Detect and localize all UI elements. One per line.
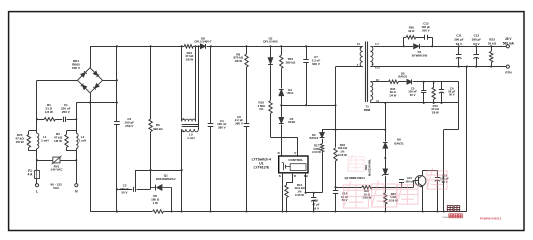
svg-text:BAV21: BAV21 [398,75,407,79]
svg-text:VAC: VAC [53,186,60,190]
svg-text:L: L [36,190,38,194]
svg-text:1,7: 1,7 [375,42,379,46]
svg-text:1/8 W: 1/8 W [432,110,440,114]
svg-text:280 kΩ: 280 kΩ [286,61,296,65]
svg-text:50 V: 50 V [449,93,455,97]
svg-text:1/2 W: 1/2 W [45,110,53,114]
svg-text:1%: 1% [259,107,264,111]
svg-text:R: R [294,174,297,178]
svg-text:20 kΩ: 20 kΩ [488,42,497,46]
svg-text:Q1: Q1 [164,174,168,178]
svg-text:PI-6846-042213: PI-6846-042213 [480,216,502,220]
svg-text:U51J: U51J [287,91,294,95]
svg-text:1 mH: 1 mH [41,138,48,142]
svg-text:BAV21: BAV21 [394,141,404,145]
svg-text:LYT4317E: LYT4317E [254,165,270,169]
svg-text:50 V: 50 V [121,191,127,195]
svg-text:100 nF: 100 nF [405,179,414,183]
svg-text:140 VAC: 140 VAC [50,168,63,172]
svg-text:600 V: 600 V [72,66,81,70]
svg-text:BAV19: BAV19 [309,136,318,140]
svg-text:V: V [294,151,296,155]
svg-text:1 W: 1 W [153,201,158,205]
svg-text:MAZS2400ML: MAZS2400ML [367,159,371,176]
svg-text:250 V: 250 V [62,110,71,114]
svg-text:BSS126MA05L2: BSS126MA05L2 [156,177,176,181]
svg-text:1/8 W: 1/8 W [234,59,242,63]
svg-text:250 V: 250 V [125,124,134,128]
svg-text:560 mA: 560 mA [503,42,515,46]
svg-text:1/8 W: 1/8 W [16,140,24,144]
svg-text:63 V: 63 V [473,42,480,46]
svg-text:12: 12 [357,42,360,46]
svg-text:280 V: 280 V [235,122,243,126]
svg-text:280 V: 280 V [218,126,226,130]
svg-text:DFLU1400-7: DFLU1400-7 [195,40,212,44]
svg-text:1 mH: 1 mH [187,136,194,140]
svg-text:RM8: RM8 [364,108,371,112]
svg-text:1/8 W: 1/8 W [185,58,193,62]
svg-text:1/16 W: 1/16 W [295,193,304,197]
svg-text:RTN: RTN [505,70,511,74]
svg-text:39 Ω: 39 Ω [408,29,415,33]
svg-text:1/4 W: 1/4 W [389,93,397,97]
svg-text:S: S [279,174,281,178]
svg-text:Q2 MMBT3904: Q2 MMBT3904 [345,176,365,180]
svg-text:BYW98-200: BYW98-200 [412,54,428,58]
svg-text:4 A: 4 A [28,173,34,177]
svg-text:N: N [75,190,78,194]
svg-text:63 V: 63 V [456,42,463,46]
svg-text:50 V: 50 V [410,93,416,97]
svg-text:50 V: 50 V [342,198,348,202]
svg-text:D: D [278,151,281,155]
svg-text:200 V: 200 V [422,29,430,33]
svg-text:1/8 W: 1/8 W [54,139,62,143]
svg-text:CONTROL: CONTROL [288,158,303,162]
svg-text:FB: FB [304,174,309,178]
svg-text:16 V: 16 V [313,207,319,211]
svg-text:396 kΩ: 396 kΩ [153,127,163,131]
svg-text:U31D: U31D [288,120,295,124]
svg-text:1/16 W: 1/16 W [338,153,347,157]
svg-text:28 V: 28 V [505,37,512,41]
svg-text:1/10 W: 1/10 W [312,150,321,154]
svg-text:630 V: 630 V [312,62,320,66]
svg-text:DFLU1400: DFLU1400 [263,40,278,44]
svg-text:1 mH: 1 mH [79,138,86,142]
